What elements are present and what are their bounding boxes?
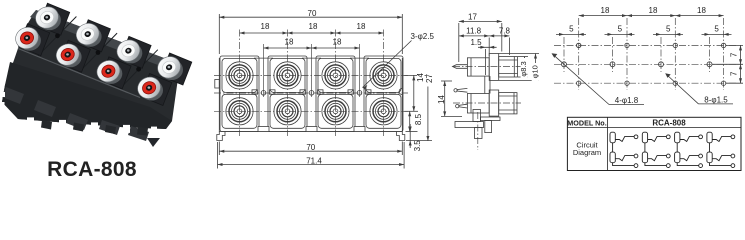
svg-text:8.5: 8.5: [414, 113, 423, 125]
svg-text:5: 5: [618, 25, 623, 34]
svg-text:18: 18: [309, 22, 318, 31]
svg-text:4-φ1.8: 4-φ1.8: [615, 96, 639, 105]
svg-text:14: 14: [416, 73, 425, 82]
svg-text:71.4: 71.4: [306, 157, 322, 166]
svg-text:18: 18: [697, 6, 706, 15]
svg-text:70: 70: [308, 9, 317, 18]
svg-text:18: 18: [285, 38, 294, 47]
svg-text:27: 27: [425, 74, 434, 83]
svg-text:φ10: φ10: [530, 65, 539, 78]
svg-text:17: 17: [468, 13, 477, 22]
svg-text:7: 7: [729, 71, 738, 76]
svg-text:5: 5: [714, 25, 719, 34]
svg-text:14: 14: [437, 95, 446, 104]
svg-text:18: 18: [333, 38, 342, 47]
svg-text:3-φ2.5: 3-φ2.5: [411, 32, 435, 41]
svg-text:7.8: 7.8: [499, 27, 511, 36]
svg-text:φ8.3: φ8.3: [519, 61, 528, 76]
svg-text:3.5: 3.5: [413, 140, 422, 152]
svg-text:7: 7: [729, 52, 738, 57]
svg-text:5: 5: [666, 25, 671, 34]
svg-text:RCA-808: RCA-808: [47, 158, 137, 181]
svg-text:11.8: 11.8: [466, 27, 482, 36]
svg-text:70: 70: [306, 143, 315, 152]
svg-text:MODEL No.: MODEL No.: [567, 118, 606, 127]
svg-text:18: 18: [649, 6, 658, 15]
svg-text:8-φ1.5: 8-φ1.5: [704, 95, 728, 104]
svg-text:18: 18: [261, 22, 270, 31]
svg-text:5: 5: [569, 25, 574, 34]
svg-text:RCA-808: RCA-808: [652, 119, 686, 128]
svg-text:18: 18: [601, 6, 610, 15]
svg-text:18: 18: [357, 22, 366, 31]
svg-text:Diagram: Diagram: [573, 148, 601, 157]
svg-text:1.5: 1.5: [470, 38, 482, 47]
